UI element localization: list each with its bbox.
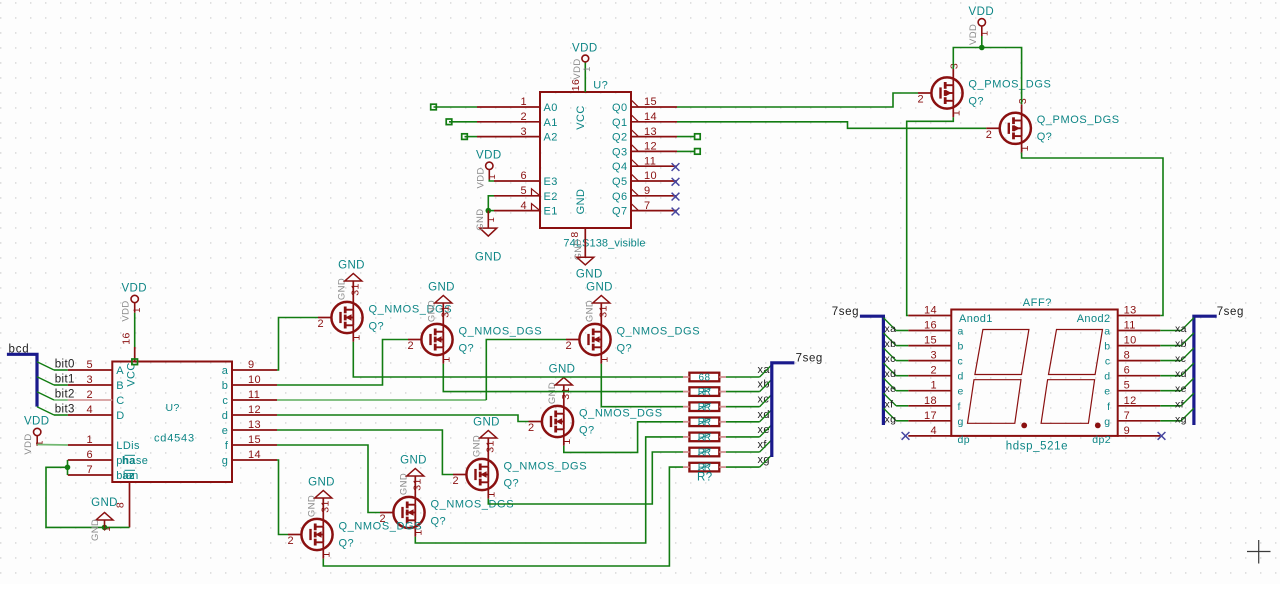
svg-text:Q3: Q3: [612, 146, 627, 158]
wire R4 to bus, label xd: [726, 421, 760, 423]
svg-text:Q?: Q?: [459, 343, 474, 355]
svg-text:7seg: 7seg: [1217, 306, 1244, 318]
op-amp U? 74LS138_visible decoder body: [540, 92, 631, 228]
wire bit3, label bit3: [54, 414, 68, 416]
ground (above transistor, rotated): [600, 303, 602, 316]
svg-text:f: f: [225, 440, 229, 452]
wire Q6 source to R5: [415, 437, 683, 543]
svg-text:2: 2: [918, 94, 925, 106]
svg-text:15: 15: [924, 335, 937, 347]
svg-text:7: 7: [1124, 410, 1131, 422]
svg-text:GND: GND: [308, 477, 335, 489]
wire R6 to bus, label xf: [726, 451, 760, 453]
svg-text:Q7: Q7: [612, 206, 627, 218]
ground (above transistor, rotated): [563, 385, 565, 398]
svg-text:18: 18: [924, 395, 937, 407]
svg-text:xf: xf: [885, 398, 894, 410]
resistor R? #6: [689, 448, 719, 457]
svg-text:R?: R?: [697, 472, 713, 484]
svg-text:d: d: [222, 410, 229, 422]
svg-text:GND: GND: [475, 252, 502, 264]
junction at GND symbol: [102, 525, 108, 531]
svg-text:14: 14: [248, 449, 261, 461]
svg-text:1: 1: [979, 30, 990, 36]
svg-text:31: 31: [440, 305, 452, 317]
svg-text:68: 68: [699, 372, 711, 383]
bus entry xc: [760, 394, 773, 407]
svg-text:3: 3: [1017, 98, 1029, 104]
svg-text:dp2: dp2: [1092, 434, 1111, 446]
wire Q7 source to R7: [323, 467, 683, 566]
svg-text:1: 1: [132, 307, 143, 313]
svg-text:15: 15: [644, 96, 657, 108]
wire Q0 to PMOS gate: [677, 93, 918, 107]
bus entry xe: [760, 424, 773, 437]
svg-text:16: 16: [120, 332, 132, 344]
svg-text:xb: xb: [1175, 338, 1187, 350]
svg-text:2: 2: [408, 340, 415, 352]
svg-text:7seg: 7seg: [832, 306, 859, 318]
svg-text:f: f: [1107, 401, 1110, 413]
svg-text:Q_NMOS_DGS: Q_NMOS_DGS: [339, 520, 423, 532]
wire R2 to bus, label xb: [726, 391, 760, 393]
svg-text:E3: E3: [544, 176, 558, 188]
svg-text:7seg: 7seg: [796, 353, 823, 365]
svg-text:xg: xg: [1175, 413, 1187, 425]
svg-text:VDD: VDD: [476, 149, 501, 161]
wire net c to Q3 gate: [277, 399, 486, 401]
U? cd4543 VCC pin 16: [134, 347, 136, 362]
svg-text:xg: xg: [885, 413, 897, 425]
wire net a to Q1 gate: [277, 318, 318, 371]
ground (above transistor, rotated): [352, 281, 354, 294]
bus entry xa: [760, 364, 773, 377]
U? cd4543 right pins: [232, 369, 277, 371]
svg-text:xd: xd: [758, 409, 770, 421]
svg-text:bit1: bit1: [55, 374, 75, 386]
bus entry and wire xc left: [883, 348, 896, 361]
svg-text:4: 4: [86, 404, 93, 416]
bus entry xb: [760, 379, 773, 392]
svg-text:1: 1: [1019, 145, 1031, 151]
wire Q5 source to R6: [488, 452, 683, 504]
svg-text:1: 1: [951, 110, 963, 116]
bus entry and wire xf right: [1160, 405, 1181, 407]
svg-text:GND: GND: [575, 189, 587, 215]
svg-text:g: g: [958, 416, 964, 428]
wire Q1 source to R1: [353, 342, 683, 377]
svg-text:1: 1: [86, 434, 93, 446]
svg-text:GND: GND: [475, 208, 486, 230]
svg-text:a: a: [1104, 326, 1110, 338]
svg-text:A2: A2: [544, 132, 558, 144]
svg-text:31: 31: [412, 478, 424, 490]
svg-text:xd: xd: [1175, 368, 1187, 380]
svg-text:LDis: LDis: [116, 440, 140, 452]
svg-text:10: 10: [1124, 335, 1137, 347]
svg-text:4: 4: [520, 200, 527, 212]
svg-text:13: 13: [1124, 305, 1137, 317]
wire net d to Q4 gate: [277, 415, 529, 422]
wire net b to Q2 gate: [277, 340, 408, 386]
svg-text:GND: GND: [586, 282, 613, 294]
svg-text:5: 5: [86, 359, 93, 371]
transistor Q? Q_NMOS_DGS: [331, 302, 362, 333]
svg-text:2: 2: [520, 111, 527, 123]
bus entry bit0: [37, 362, 54, 370]
no-connect X pin 10: [672, 178, 680, 186]
svg-text:13: 13: [248, 419, 261, 431]
svg-text:b: b: [1104, 341, 1110, 353]
svg-text:az: az: [123, 470, 136, 482]
svg-text:d: d: [1104, 371, 1110, 383]
unconnected end A2: [462, 134, 468, 140]
svg-text:Q2: Q2: [612, 132, 627, 144]
wire bit2, label bit2: [54, 399, 68, 401]
svg-text:D: D: [116, 410, 124, 422]
svg-text:6: 6: [520, 170, 527, 182]
svg-text:A1: A1: [544, 117, 558, 129]
svg-text:xc: xc: [885, 353, 896, 365]
wire phase/blan to GND loop: [46, 467, 130, 527]
svg-text:E2: E2: [544, 191, 558, 203]
svg-text:9: 9: [248, 359, 255, 371]
wire Q2 stub: [677, 136, 695, 138]
wire input A1: [449, 121, 477, 123]
svg-text:1: 1: [930, 380, 937, 392]
resistor R? #3: [689, 402, 719, 411]
svg-text:xb: xb: [758, 379, 770, 391]
svg-text:GND: GND: [91, 497, 118, 509]
svg-text:3: 3: [86, 374, 93, 386]
bus entry bit1: [37, 377, 54, 385]
svg-text:3: 3: [520, 126, 527, 138]
svg-text:U?: U?: [593, 80, 608, 92]
svg-text:xc: xc: [758, 394, 770, 406]
bus entry and wire xg left: [883, 408, 896, 421]
svg-text:8: 8: [569, 231, 581, 237]
wire R5 to bus, label xe: [726, 436, 760, 438]
svg-text:d: d: [958, 371, 964, 383]
ground at E1/E2: [487, 211, 489, 229]
wire net g to Q7 gate: [277, 460, 288, 535]
svg-text:xa: xa: [758, 364, 771, 376]
svg-text:Q4: Q4: [612, 161, 627, 173]
svg-text:1: 1: [486, 217, 497, 223]
svg-text:16: 16: [570, 79, 582, 91]
svg-text:3: 3: [949, 63, 961, 69]
svg-text:xe: xe: [885, 383, 897, 395]
svg-text:1: 1: [441, 356, 453, 362]
unconnected end Q2: [695, 134, 701, 140]
svg-text:Q?: Q?: [617, 343, 632, 355]
wire PMOS2 source to Anod2: [1022, 153, 1163, 316]
svg-text:GND: GND: [473, 417, 500, 429]
svg-text:e: e: [1104, 386, 1110, 398]
svg-text:Q_PMOS_DGS: Q_PMOS_DGS: [1037, 114, 1120, 126]
op-amp U? cd4543 latch/decoder body: [112, 362, 232, 483]
svg-text:c: c: [1105, 356, 1111, 368]
U? cd4543 GND pin 8: [129, 482, 131, 527]
bus entry bit3: [37, 407, 54, 415]
wire input A0: [434, 106, 478, 108]
svg-text:7: 7: [644, 200, 651, 212]
bus entry and wire xf left: [883, 393, 896, 406]
bus entry and wire xa right: [1160, 330, 1181, 332]
svg-text:c: c: [958, 356, 964, 368]
svg-text:10: 10: [644, 170, 657, 182]
resistor R? #4: [689, 418, 719, 427]
svg-text:Q?: Q?: [369, 321, 384, 333]
svg-text:14: 14: [924, 305, 937, 317]
resistor R? #1 value 68: [689, 373, 719, 382]
svg-text:12: 12: [1124, 395, 1137, 407]
inverted-input marks E2 E1: [532, 189, 541, 196]
svg-text:VDD: VDD: [968, 24, 979, 45]
display digit 2 decimal point: [1095, 423, 1101, 429]
wire Q4 source to R4: [564, 422, 683, 453]
svg-text:15: 15: [248, 434, 261, 446]
svg-text:12: 12: [248, 404, 261, 416]
svg-text:Q?: Q?: [579, 425, 594, 437]
ground (above transistor, rotated): [487, 438, 489, 451]
svg-text:6: 6: [1124, 365, 1131, 377]
svg-text:VDD: VDD: [969, 6, 994, 18]
wire VDD to LDis: [37, 444, 68, 447]
wire Q2 source to R2: [443, 364, 683, 392]
svg-text:AFF?: AFF?: [1023, 297, 1052, 309]
svg-text:A: A: [116, 365, 124, 377]
svg-text:16: 16: [924, 320, 937, 332]
svg-text:2: 2: [566, 340, 573, 352]
svg-text:U?: U?: [166, 402, 180, 414]
wire R3 to bus, label xc: [726, 406, 760, 408]
svg-text:bit0: bit0: [55, 359, 75, 371]
svg-text:xa: xa: [885, 323, 897, 335]
svg-text:2: 2: [528, 422, 535, 434]
svg-text:VDD: VDD: [475, 167, 486, 188]
no-connect X pin 11: [672, 163, 680, 171]
svg-text:8: 8: [1124, 350, 1131, 362]
bus entry xg: [760, 454, 773, 467]
svg-text:31: 31: [598, 305, 610, 317]
svg-text:dp: dp: [958, 434, 970, 446]
svg-text:1: 1: [102, 526, 113, 532]
svg-text:GND: GND: [549, 364, 576, 376]
svg-text:14: 14: [644, 111, 657, 123]
bus entry and wire xd left: [883, 363, 896, 376]
wire Q1 to PMOS gate: [677, 122, 986, 129]
wire phase/blan tie: [67, 460, 69, 475]
wire E1 to GND: [488, 210, 494, 212]
wire bit1, label bit1: [54, 384, 68, 386]
wire PMOS1 source to Anod1: [907, 117, 954, 315]
resistor R? #5: [689, 433, 719, 442]
unconnected end A0: [431, 104, 437, 110]
svg-text:31: 31: [485, 440, 497, 452]
wire R1 to bus, label xa: [726, 376, 760, 378]
svg-text:E1: E1: [544, 206, 558, 218]
ground at U? pin 8: [577, 257, 594, 265]
cursor crosshair: [1247, 551, 1271, 553]
svg-text:Q5: Q5: [612, 176, 627, 188]
junction phase/blan: [65, 465, 71, 471]
svg-text:VCC: VCC: [575, 105, 587, 129]
bus entry and wire xd right: [1160, 375, 1181, 377]
svg-text:a: a: [958, 326, 964, 338]
svg-text:9: 9: [644, 185, 651, 197]
bus entry and wire xc right: [1160, 360, 1181, 362]
svg-text:VCC: VCC: [126, 362, 138, 386]
svg-text:xa: xa: [1175, 323, 1187, 335]
transistor Q? Q_NMOS_DGS: [542, 406, 573, 437]
wire Q3 stub: [677, 150, 695, 152]
display digit 2 outline: [1049, 330, 1103, 375]
svg-text:Q?: Q?: [339, 538, 354, 550]
bus 7seg (middle): [772, 363, 795, 457]
ground (above transistor, rotated): [442, 303, 444, 316]
unconnected end Q3: [695, 149, 701, 155]
svg-text:Q?: Q?: [968, 96, 983, 108]
ground (above transistor, rotated): [322, 498, 324, 511]
display right pins: [1117, 315, 1160, 317]
svg-text:cd4543: cd4543: [154, 433, 195, 445]
bus entry xd: [760, 409, 773, 422]
bus entry and wire xe right: [1160, 390, 1181, 392]
bus entry bit2: [37, 392, 54, 400]
wire input A2: [465, 136, 478, 138]
svg-text:C: C: [116, 395, 124, 407]
svg-text:5: 5: [1124, 380, 1131, 392]
wire R7 to bus, label xg: [726, 466, 760, 468]
svg-text:31: 31: [560, 387, 572, 399]
bus entry and wire xe left: [883, 378, 896, 391]
svg-text:GND: GND: [428, 282, 455, 294]
svg-text:Q?: Q?: [504, 478, 519, 490]
bus entry and wire xb right: [1160, 345, 1181, 347]
svg-text:b: b: [958, 341, 964, 353]
svg-text:2: 2: [288, 535, 295, 547]
display digit 1 outline: [975, 330, 1029, 375]
svg-text:Q_NMOS_DGS: Q_NMOS_DGS: [579, 407, 663, 419]
bus entry and wire xa left: [883, 318, 896, 331]
resistor R? #7: [689, 463, 719, 472]
svg-text:xe: xe: [1175, 383, 1187, 395]
svg-text:3: 3: [930, 350, 937, 362]
svg-text:GND: GND: [576, 268, 603, 280]
wire VDD to E3: [489, 180, 494, 182]
svg-text:Q_NMOS_DGS: Q_NMOS_DGS: [617, 325, 701, 337]
wire net f to Q6 gate: [277, 445, 380, 513]
no-connect X pin 9: [672, 193, 680, 201]
svg-text:c: c: [222, 395, 228, 407]
svg-text:1: 1: [351, 334, 363, 340]
svg-text:Anod1: Anod1: [959, 313, 993, 325]
svg-text:11: 11: [1124, 320, 1136, 332]
U? 74LS138 VCC pin 16: [584, 62, 586, 92]
junction VDD rail: [979, 45, 985, 51]
svg-text:17: 17: [924, 410, 937, 422]
svg-text:11: 11: [248, 389, 260, 401]
svg-text:bit3: bit3: [55, 404, 75, 416]
wire net e to Q5 gate: [277, 430, 453, 475]
svg-text:7: 7: [86, 464, 93, 476]
svg-text:a: a: [222, 365, 229, 377]
transistor Q? Q_PMOS_DGS lower: [1000, 113, 1031, 144]
svg-text:1: 1: [582, 66, 593, 72]
svg-text:ha: ha: [122, 455, 136, 467]
svg-text:xc: xc: [1175, 353, 1186, 365]
ground (above transistor, rotated): [414, 476, 416, 489]
display left pins: [908, 315, 951, 317]
svg-text:xb: xb: [885, 338, 897, 350]
svg-text:31: 31: [350, 283, 362, 295]
svg-text:VDD: VDD: [24, 416, 49, 428]
svg-text:Q_NMOS_DGS: Q_NMOS_DGS: [504, 460, 588, 472]
svg-text:GND: GND: [90, 519, 101, 541]
wire bit0, label bit0: [54, 369, 68, 371]
svg-text:Q1: Q1: [612, 117, 627, 129]
svg-text:A0: A0: [544, 102, 558, 114]
svg-text:1: 1: [486, 491, 498, 497]
svg-text:xd: xd: [885, 368, 897, 380]
svg-text:GND: GND: [400, 455, 427, 467]
svg-text:bit2: bit2: [55, 389, 75, 401]
svg-text:g: g: [222, 455, 229, 467]
transistor Q? Q_NMOS_DGS: [393, 497, 424, 528]
svg-text:1: 1: [487, 174, 498, 180]
U? cd4543 left pins: [68, 369, 113, 371]
svg-text:GND: GND: [338, 260, 365, 272]
transistor Q? Q_NMOS_DGS: [579, 324, 610, 355]
display AFF? hdsp_521e body: [951, 310, 1117, 436]
svg-text:xe: xe: [758, 424, 770, 436]
svg-text:2: 2: [930, 365, 937, 377]
svg-text:Anod2: Anod2: [1077, 313, 1111, 325]
unconnected end A1: [446, 119, 452, 125]
U? 74LS138 left pins: [477, 106, 540, 108]
svg-text:hdsp_521e: hdsp_521e: [1006, 441, 1068, 453]
svg-text:VDD: VDD: [23, 433, 34, 454]
wire E2 to E1 net: [488, 196, 494, 211]
wire VDD rail to PMOS drains: [953, 48, 1021, 105]
no-connect X display dp left: [902, 432, 910, 440]
display digit 1 decimal point: [1021, 423, 1027, 429]
svg-text:Q?: Q?: [431, 516, 446, 528]
bus entry and wire xg right: [1160, 420, 1181, 422]
svg-text:Q6: Q6: [612, 191, 627, 203]
svg-text:5: 5: [520, 185, 527, 197]
svg-text:xf: xf: [1175, 398, 1184, 410]
U? 74LS138 right pins: [631, 106, 677, 108]
svg-text:10: 10: [248, 374, 261, 386]
svg-text:VDD: VDD: [121, 283, 146, 295]
transistor Q? Q_NMOS_DGS: [301, 519, 332, 550]
svg-text:f: f: [958, 401, 961, 413]
no-connect X display dp right: [1158, 432, 1166, 440]
resistor R? #2: [689, 387, 719, 396]
svg-text:e: e: [222, 425, 229, 437]
no-connect X pin 7: [672, 208, 680, 216]
svg-text:6: 6: [86, 449, 93, 461]
svg-text:13: 13: [644, 126, 657, 138]
svg-text:Q_NMOS_DGS: Q_NMOS_DGS: [459, 325, 543, 337]
svg-text:1: 1: [321, 551, 333, 557]
svg-text:1: 1: [599, 356, 611, 362]
transistor Q? Q_PMOS_DGS upper: [931, 77, 962, 108]
U? 74LS138 GND pin 8: [584, 228, 586, 257]
svg-text:g: g: [1104, 416, 1110, 428]
